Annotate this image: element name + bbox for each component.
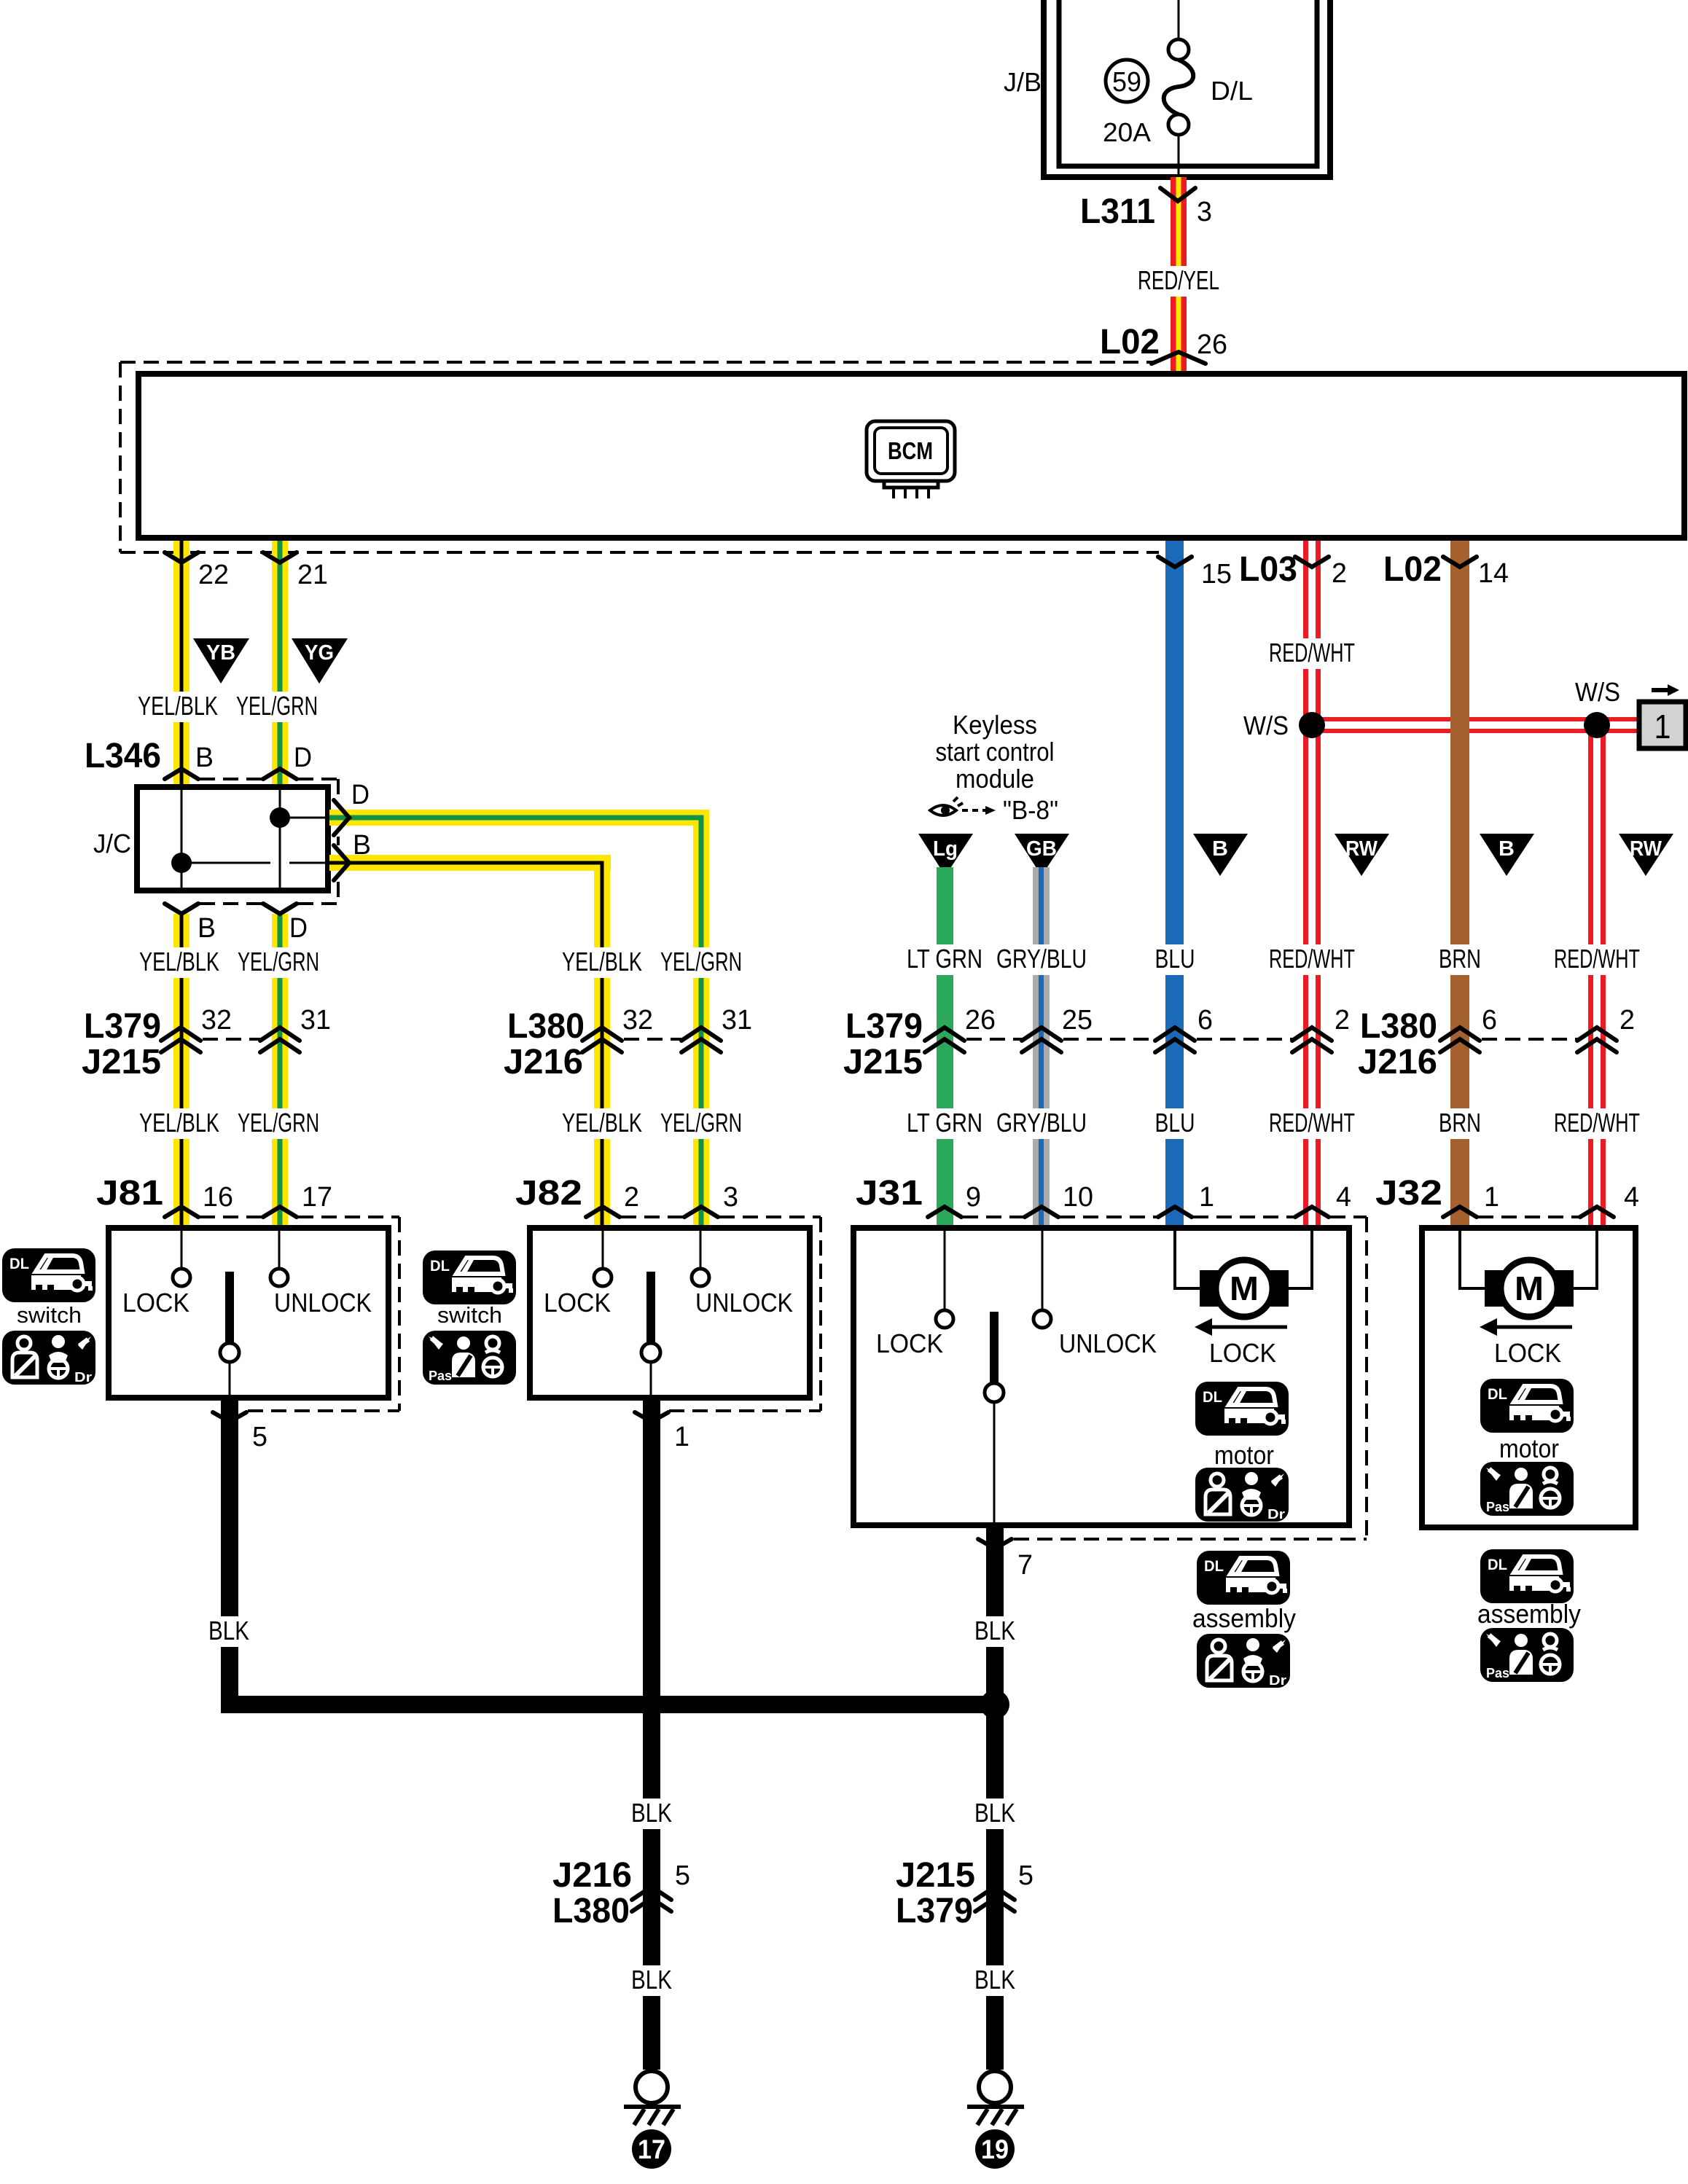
- svg-text:RED/WHT: RED/WHT: [1269, 944, 1355, 974]
- svg-text:YEL/GRN: YEL/GRN: [660, 1108, 742, 1138]
- svg-text:BRN: BRN: [1439, 944, 1481, 974]
- svg-text:UNLOCK: UNLOCK: [274, 1288, 372, 1318]
- lock direction arrow: [1491, 1326, 1572, 1329]
- Dr position icon (assembly J31): [1197, 1634, 1290, 1688]
- svg-text:J81: J81: [96, 1174, 163, 1213]
- J81 switch lever: [225, 1272, 234, 1343]
- svg-text:LT GRN: LT GRN: [907, 1108, 982, 1138]
- svg-text:RED/YEL: RED/YEL: [1138, 265, 1219, 295]
- splice node on bus: [980, 1690, 1009, 1719]
- svg-text:20A: 20A: [1103, 117, 1151, 147]
- J31 LOCK contact: [944, 1231, 946, 1310]
- svg-text:assembly: assembly: [1477, 1599, 1581, 1629]
- svg-text:17: 17: [638, 2134, 665, 2164]
- svg-text:start control: start control: [936, 737, 1055, 767]
- svg-text:GRY/BLU: GRY/BLU: [996, 1108, 1087, 1138]
- svg-text:L02: L02: [1100, 323, 1160, 361]
- svg-text:BLK: BLK: [974, 1616, 1015, 1645]
- svg-text:B: B: [1212, 837, 1228, 861]
- dashed link between pins 32-31: [203, 1038, 260, 1041]
- J82 LOCK contact: [602, 1231, 604, 1269]
- wire YEL/BLK BCM pin22 to J/C: [173, 541, 189, 788]
- svg-text:31: 31: [722, 1005, 752, 1036]
- J82 pin 3 chevron: [684, 1207, 718, 1217]
- wire GRY/BLU to J31 pin10: [1033, 867, 1050, 1228]
- svg-text:1: 1: [1484, 1182, 1499, 1213]
- label RED/WHT below L03: [1265, 638, 1359, 669]
- dashed link pins 6-2: [1482, 1038, 1577, 1041]
- svg-text:YEL/BLK: YEL/BLK: [562, 1108, 642, 1138]
- svg-text:B: B: [195, 743, 214, 773]
- svg-text:J215: J215: [843, 1043, 923, 1081]
- BCM icon: [867, 421, 955, 481]
- DL motor icon (J31): [1195, 1382, 1289, 1436]
- pin 2 double chevron (RED/WHT): [1577, 1028, 1617, 1052]
- svg-text:1: 1: [1199, 1182, 1214, 1213]
- svg-text:GRY/BLU: GRY/BLU: [996, 944, 1087, 974]
- Pas position icon: [423, 1331, 516, 1385]
- svg-text:9: 9: [966, 1182, 981, 1213]
- svg-text:3: 3: [723, 1182, 738, 1213]
- motor M (J32): [1485, 1260, 1574, 1317]
- svg-text:LOCK: LOCK: [544, 1288, 611, 1318]
- wire YEL/BLK J/C to J81: [173, 914, 189, 1228]
- svg-text:LT GRN: LT GRN: [907, 944, 982, 974]
- L346 pin B: [165, 769, 198, 779]
- J31 pin 1 chevron: [1158, 1207, 1192, 1217]
- svg-text:5: 5: [252, 1422, 267, 1452]
- wire RED/WHT L03 pin2 to J31 pin4: [1303, 541, 1321, 1228]
- L379/J215 pin 31 double chevron: [260, 1028, 300, 1052]
- svg-text:2: 2: [1619, 1005, 1635, 1036]
- label YEL/BLK: [558, 1108, 646, 1139]
- J32 pin 4 chevron: [1580, 1207, 1614, 1217]
- J/C exit chevron D: [334, 800, 349, 835]
- BCM pin 15 chevron: [1158, 557, 1192, 567]
- svg-text:LOCK: LOCK: [1494, 1338, 1561, 1368]
- Pas position icon (J32): [1480, 1462, 1574, 1516]
- wire YEL/GRN horizontal from J/C pin D: [329, 810, 709, 826]
- svg-text:J31: J31: [856, 1174, 923, 1213]
- J81 pin 16 chevron: [165, 1207, 198, 1217]
- svg-text:W/S: W/S: [1243, 711, 1289, 740]
- destination triangle RW (left): [1335, 834, 1389, 876]
- DL switch icon (driver): [2, 1248, 95, 1302]
- wire BRN L02 pin14 to J32 pin1: [1450, 541, 1469, 1228]
- J82 switch lever: [646, 1272, 655, 1343]
- J/C pin D bottom chevron: [263, 904, 297, 914]
- J82 connector dashed outline: [621, 1216, 683, 1218]
- J/C internal wire D: [279, 787, 281, 891]
- fuse F59 element: [1178, 0, 1180, 39]
- svg-text:32: 32: [201, 1005, 232, 1036]
- J/C junction box: [137, 787, 328, 891]
- Pas position icon (assembly J32): [1480, 1628, 1574, 1682]
- label BLK (J81 pin5): [204, 1616, 254, 1647]
- svg-text:3: 3: [1197, 197, 1212, 227]
- svg-text:GB: GB: [1026, 837, 1057, 861]
- DL assembly icon (J31): [1197, 1551, 1290, 1605]
- label RED/YEL: [1133, 266, 1224, 297]
- destination triangle YB: [193, 638, 249, 684]
- motor M (J31): [1200, 1260, 1289, 1317]
- label YEL/GRN: [233, 1108, 324, 1139]
- pin 6 double chevron (BRN): [1440, 1028, 1480, 1052]
- svg-text:7: 7: [1017, 1550, 1033, 1581]
- label BLK (ground lead right): [970, 1965, 1020, 1996]
- svg-text:Keyless: Keyless: [953, 710, 1037, 740]
- svg-text:4: 4: [1624, 1182, 1639, 1213]
- ground bus wire: [221, 1696, 996, 1713]
- label BLK (below bus right): [970, 1799, 1020, 1829]
- BCM pin 22 chevron: [165, 552, 198, 563]
- J81 pin 17 chevron: [263, 1207, 297, 1217]
- wire BLU BCM pin15 to J31 pin1: [1165, 541, 1184, 1228]
- svg-text:16: 16: [203, 1182, 233, 1213]
- svg-text:"B-8": "B-8": [1003, 795, 1058, 825]
- J31 pin 9 chevron: [928, 1207, 961, 1217]
- svg-text:motor: motor: [1214, 1440, 1274, 1470]
- svg-text:YEL/GRN: YEL/GRN: [660, 947, 742, 976]
- svg-text:25: 25: [1062, 1005, 1093, 1036]
- svg-text:6: 6: [1197, 1005, 1213, 1036]
- svg-text:21: 21: [297, 560, 328, 590]
- svg-text:2: 2: [624, 1182, 639, 1213]
- pin 6 double chevron: [1155, 1028, 1195, 1052]
- J/C exit chevron B: [334, 845, 349, 880]
- label YEL/BLK: [133, 692, 222, 722]
- svg-text:YG: YG: [305, 641, 334, 665]
- svg-text:BCM: BCM: [888, 437, 933, 464]
- svg-text:motor: motor: [1499, 1433, 1559, 1463]
- svg-text:26: 26: [1197, 329, 1227, 360]
- svg-text:RW: RW: [1630, 837, 1662, 861]
- source triangle GB: [1015, 834, 1069, 876]
- svg-text:10: 10: [1063, 1182, 1093, 1213]
- DL assembly icon (J32): [1480, 1549, 1574, 1603]
- svg-text:RW: RW: [1345, 837, 1378, 861]
- svg-text:32: 32: [622, 1005, 653, 1036]
- wire color labels row: [902, 944, 987, 975]
- svg-text:RED/WHT: RED/WHT: [1269, 638, 1355, 668]
- page link box 1: [1639, 702, 1686, 748]
- label YEL/GRN: [656, 1108, 746, 1139]
- svg-text:YEL/GRN: YEL/GRN: [238, 947, 319, 976]
- svg-text:RED/WHT: RED/WHT: [1269, 1108, 1355, 1138]
- J81 UNLOCK contact: [278, 1231, 281, 1269]
- J31 motor feed from pin 1: [1175, 1231, 1200, 1288]
- wire LT GRN to J31 pin9: [937, 867, 953, 1228]
- label YEL/BLK: [558, 947, 646, 978]
- svg-text:J216: J216: [552, 1856, 632, 1895]
- svg-text:D: D: [294, 743, 312, 773]
- J81 pin 5 wire BLK: [221, 1398, 238, 1713]
- svg-text:J216: J216: [504, 1043, 583, 1081]
- dashed link between pins 32-31: [624, 1038, 681, 1041]
- J82 pin 1 chevron: [635, 1412, 668, 1422]
- destination triangle B (brown): [1480, 834, 1534, 876]
- wire YEL/BLK vertical to J82: [594, 855, 610, 1228]
- stripe elbow patches: [692, 815, 704, 821]
- svg-text:Lg: Lg: [933, 837, 958, 861]
- label BLK (below bus left): [627, 1799, 676, 1829]
- BCM pin 21 chevron: [263, 552, 297, 563]
- svg-text:switch: switch: [17, 1302, 82, 1328]
- svg-text:22: 22: [198, 560, 229, 590]
- J31 switch lever: [990, 1312, 999, 1383]
- svg-text:L346: L346: [85, 737, 161, 775]
- L380/J216 pin 31 double chevron: [681, 1028, 721, 1052]
- svg-text:L02: L02: [1383, 550, 1442, 589]
- svg-text:LOCK: LOCK: [876, 1328, 943, 1358]
- svg-text:W/S: W/S: [1575, 677, 1620, 707]
- label YEL/GRN: [233, 947, 324, 978]
- J32 motor feed from pin 1: [1460, 1231, 1485, 1288]
- door lock switch J82 box: [530, 1228, 810, 1398]
- splice node W/S left: [1299, 712, 1325, 738]
- label BLK (ground lead left): [627, 1965, 676, 1996]
- fuse 59 circled label: [1106, 60, 1148, 102]
- svg-text:BLK: BLK: [208, 1616, 249, 1645]
- svg-text:BLU: BLU: [1155, 1108, 1195, 1138]
- svg-text:YEL/GRN: YEL/GRN: [236, 691, 318, 721]
- svg-text:J215: J215: [896, 1856, 975, 1895]
- svg-text:BRN: BRN: [1439, 1108, 1481, 1138]
- svg-text:14: 14: [1478, 558, 1509, 589]
- destination triangle RW (right): [1619, 834, 1673, 876]
- wire YEL/GRN J/C to J81: [272, 914, 288, 1228]
- wire BRN over crossing: [1450, 714, 1469, 736]
- door lock assembly J32 box: [1422, 1228, 1636, 1527]
- J31 pin 10 chevron: [1025, 1207, 1058, 1217]
- svg-text:YEL/BLK: YEL/BLK: [562, 947, 642, 976]
- svg-text:YEL/GRN: YEL/GRN: [238, 1108, 319, 1138]
- J81 connector dashed outline: [200, 1216, 262, 1218]
- lock direction arrow: [1206, 1326, 1287, 1329]
- connector L311 pin 3: [1160, 188, 1195, 201]
- svg-text:31: 31: [300, 1005, 331, 1036]
- svg-text:LOCK: LOCK: [122, 1288, 189, 1318]
- svg-text:J215: J215: [82, 1043, 161, 1081]
- J31 pin 7 chevron: [978, 1539, 1012, 1549]
- svg-text:BLK: BLK: [974, 1798, 1015, 1828]
- DL motor icon (J32): [1480, 1379, 1574, 1433]
- wire RED/YEL from fuse to BCM: [1171, 177, 1187, 374]
- J32 motor return to pin 4: [1574, 1231, 1597, 1288]
- svg-text:D/L: D/L: [1211, 76, 1253, 106]
- chevron overlays (drawn over wires): [165, 552, 1477, 914]
- svg-text:D: D: [289, 913, 308, 944]
- svg-text:17: 17: [302, 1182, 332, 1213]
- svg-text:L380: L380: [552, 1892, 630, 1930]
- door lock assembly J31 box: [853, 1228, 1349, 1525]
- svg-text:J32: J32: [1375, 1174, 1442, 1213]
- wire RED/WHT horizontal W/S link to power door lock relay: [1313, 717, 1638, 733]
- Dr position icon (J31): [1195, 1468, 1289, 1522]
- J81 LOCK contact: [181, 1231, 183, 1269]
- svg-text:B: B: [353, 830, 371, 861]
- svg-text:2: 2: [1332, 558, 1347, 589]
- wire color labels lower row: [902, 1108, 987, 1139]
- svg-text:LOCK: LOCK: [1209, 1338, 1276, 1368]
- pin 26 double chevron: [925, 1028, 964, 1052]
- svg-text:L380: L380: [1360, 1007, 1437, 1046]
- svg-text:YEL/BLK: YEL/BLK: [139, 1108, 219, 1138]
- svg-text:1: 1: [1654, 708, 1671, 745]
- svg-text:26: 26: [965, 1005, 996, 1036]
- ground symbol 17: [636, 2071, 668, 2103]
- source triangle Lg: [918, 834, 973, 876]
- DL switch icon (passenger): [423, 1250, 516, 1304]
- J31 pin 4 chevron: [1295, 1207, 1329, 1217]
- svg-text:YEL/BLK: YEL/BLK: [139, 947, 219, 976]
- svg-text:2: 2: [1335, 1005, 1350, 1036]
- J32 connector dashed link: [1478, 1216, 1579, 1218]
- svg-text:switch: switch: [437, 1302, 502, 1328]
- destination triangle YG: [292, 638, 348, 684]
- svg-text:UNLOCK: UNLOCK: [1059, 1328, 1157, 1358]
- door lock switch J81 box: [109, 1228, 388, 1398]
- svg-text:19: 19: [981, 2134, 1009, 2164]
- svg-text:J216: J216: [1358, 1043, 1437, 1081]
- svg-text:L379: L379: [84, 1007, 161, 1046]
- J/C junction node B: [171, 853, 192, 873]
- BCM module box: [138, 374, 1684, 538]
- svg-text:RED/WHT: RED/WHT: [1554, 944, 1640, 974]
- svg-text:B: B: [1499, 837, 1515, 861]
- L380/J216 pin 32 double chevron: [582, 1028, 622, 1052]
- svg-text:59: 59: [1112, 67, 1141, 98]
- svg-text:4: 4: [1336, 1182, 1351, 1213]
- destination triangle B (blue): [1193, 834, 1248, 876]
- svg-text:assembly: assembly: [1192, 1603, 1296, 1633]
- label YEL/BLK: [135, 947, 224, 978]
- svg-text:B: B: [198, 913, 216, 944]
- svg-text:6: 6: [1482, 1005, 1497, 1036]
- svg-text:YB: YB: [206, 641, 235, 665]
- svg-text:module: module: [956, 764, 1034, 794]
- splice node W/S right: [1584, 712, 1610, 738]
- label YEL/BLK: [135, 1108, 224, 1139]
- continuation arrow to page link 1: [1652, 688, 1669, 692]
- BCM connector dashed outline: [120, 361, 1157, 364]
- svg-text:BLU: BLU: [1155, 944, 1195, 974]
- svg-text:D: D: [351, 780, 370, 810]
- svg-text:BLK: BLK: [974, 1965, 1015, 1995]
- wire YEL/BLK horizontal from J/C pin B: [329, 855, 611, 871]
- J82 pin 2 chevron: [586, 1207, 620, 1217]
- label BLK (J31 pin7): [970, 1616, 1020, 1647]
- wire YEL/GRN vertical to J82: [693, 810, 709, 1228]
- svg-text:L380: L380: [507, 1007, 585, 1046]
- svg-text:RED/WHT: RED/WHT: [1554, 1108, 1640, 1138]
- J32 pin 1 chevron: [1443, 1207, 1477, 1217]
- pin 25 double chevron: [1022, 1028, 1061, 1052]
- label YEL/GRN: [232, 692, 322, 722]
- svg-text:J/C: J/C: [93, 829, 131, 858]
- junction block J/B box: [1044, 0, 1330, 177]
- svg-text:YEL/BLK: YEL/BLK: [138, 691, 218, 721]
- J31 UNLOCK contact: [1042, 1231, 1044, 1310]
- J/C internal wire B: [181, 787, 183, 891]
- svg-text:UNLOCK: UNLOCK: [695, 1288, 793, 1318]
- svg-text:J82: J82: [515, 1174, 582, 1213]
- J/C internal link D: [280, 817, 328, 819]
- dashed links between keyless row pins: [966, 1038, 1022, 1041]
- svg-text:5: 5: [1018, 1860, 1033, 1891]
- svg-text:BLK: BLK: [631, 1798, 672, 1828]
- J/C pin B bottom chevron: [165, 904, 198, 914]
- wire RED/WHT right vertical to J32 pin4: [1588, 725, 1606, 1228]
- ground symbol 19: [979, 2071, 1011, 2103]
- svg-text:L379: L379: [845, 1007, 923, 1046]
- svg-text:J/B: J/B: [1004, 67, 1042, 97]
- Dr position icon: [2, 1331, 95, 1385]
- svg-text:15: 15: [1201, 559, 1232, 590]
- wire YEL/GRN BCM pin21 to J/C: [272, 541, 288, 788]
- svg-text:1: 1: [674, 1422, 689, 1452]
- J81 pin 5 chevron: [213, 1412, 246, 1422]
- label YEL/GRN: [656, 947, 746, 978]
- J/C internal link B: [181, 862, 270, 864]
- svg-text:L311: L311: [1080, 192, 1155, 231]
- svg-text:L379: L379: [896, 1892, 973, 1930]
- J31 pin 7 wire BLK: [986, 1525, 1004, 2070]
- svg-text:L03: L03: [1239, 550, 1297, 589]
- J82 pin 1 wire BLK: [643, 1398, 660, 2070]
- eye symbol with pointer to B-8: [930, 797, 963, 815]
- J/C junction connector dashed outline: [200, 778, 262, 780]
- J31 motor return to pin 4: [1289, 1231, 1312, 1288]
- J82 UNLOCK contact: [700, 1231, 702, 1269]
- L379/J215 pin 32 double chevron: [161, 1028, 200, 1052]
- pin 2 double chevron: [1292, 1028, 1332, 1052]
- J/C junction node D: [270, 807, 290, 828]
- L346 pin D: [263, 769, 297, 779]
- svg-text:BLK: BLK: [631, 1965, 672, 1995]
- svg-text:5: 5: [675, 1860, 690, 1891]
- J31 connector dashed outline: [963, 1216, 1023, 1218]
